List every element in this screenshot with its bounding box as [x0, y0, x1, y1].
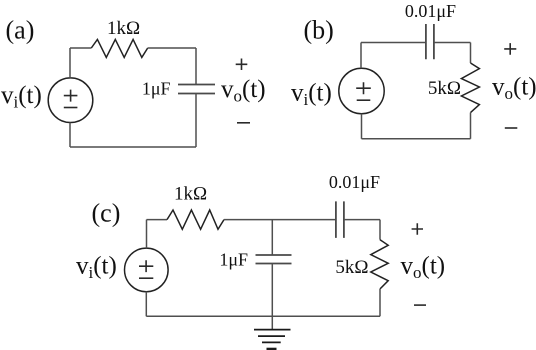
wire bottom (a) — [70, 146, 196, 148]
svg-text:vo(t): vo(t) — [221, 76, 266, 106]
wire right vertical lower (b) — [470, 113, 472, 139]
svg-text:1kΩ: 1kΩ — [174, 184, 207, 205]
svg-text:1kΩ: 1kΩ — [107, 18, 140, 39]
minus sign inside source (c) — [139, 277, 153, 279]
wire bottom (b) — [362, 138, 471, 140]
plus output marker (c) — [412, 223, 423, 235]
wire right vertical upper (a) — [195, 48, 197, 85]
wire top right segment (b) — [434, 42, 471, 44]
resistor 5kOhm (c) — [371, 240, 388, 289]
wire top-left vertical (c) — [146, 220, 148, 249]
wire right vertical lower (a) — [195, 94, 197, 148]
capacitor 1uF (a) — [178, 85, 215, 94]
svg-text:vi(t): vi(t) — [76, 253, 117, 283]
minus sign inside source (a) — [64, 107, 78, 109]
svg-text:(c): (c) — [92, 199, 121, 228]
wire bottom (c) — [146, 315, 380, 317]
plus sign inside source (a) — [64, 90, 78, 102]
wire right vertical upper (b) — [470, 43, 472, 64]
svg-text:(b): (b) — [304, 16, 334, 45]
svg-text:vi(t): vi(t) — [291, 80, 332, 110]
minus output marker (a) — [237, 122, 250, 124]
wire right vertical upper (c) — [379, 220, 381, 240]
svg-text:vo(t): vo(t) — [401, 253, 446, 283]
wire top right segment (c) — [344, 219, 380, 221]
wire bottom-left vertical (b) — [361, 114, 363, 139]
resistor 1kOhm (a) — [91, 39, 147, 57]
ground symbol (c) — [254, 330, 291, 349]
ground stub wire (c) — [271, 316, 273, 329]
capacitor 0.01uF series (c) — [336, 201, 344, 238]
svg-text:vo(t): vo(t) — [492, 74, 536, 104]
minus sign inside source (b) — [357, 99, 371, 101]
svg-text:5kΩ: 5kΩ — [335, 257, 368, 278]
voltage source v_i (a) — [48, 78, 93, 123]
svg-text:5kΩ: 5kΩ — [428, 78, 461, 99]
voltage source v_i (b) — [339, 68, 384, 113]
svg-text:(a): (a) — [6, 16, 35, 45]
plus sign inside source (b) — [356, 82, 371, 94]
wire top left segment (c) — [147, 219, 168, 221]
node vertical wire to shunt capacitor (c) — [271, 220, 273, 255]
wire bottom-left vertical (a) — [69, 123, 71, 148]
wire top left segment (b) — [361, 42, 426, 44]
wire top right segment (a) — [148, 47, 196, 49]
wire top left segment (a) — [70, 47, 91, 49]
capacitor 1uF shunt (c) — [256, 255, 292, 264]
plus output marker (a) — [236, 59, 248, 71]
svg-text:0.01μF: 0.01μF — [405, 1, 456, 21]
svg-text:vi(t): vi(t) — [1, 82, 42, 112]
wire top middle segment (c) — [224, 219, 336, 221]
svg-text:1μF: 1μF — [219, 250, 248, 270]
wire right vertical lower (c) — [379, 289, 381, 316]
minus output marker (c) — [414, 304, 426, 306]
minus output marker (b) — [505, 127, 518, 129]
voltage source v_i (c) — [125, 248, 169, 292]
wire below shunt capacitor (c) — [271, 264, 273, 317]
wire top-left vertical (a) — [69, 48, 71, 78]
resistor 1kOhm (c) — [167, 210, 224, 229]
capacitor 0.01uF (b) — [426, 24, 434, 59]
resistor 5kOhm (b) — [461, 63, 479, 113]
plus output marker (b) — [504, 43, 516, 55]
wire top-left vertical (b) — [360, 43, 362, 69]
plus sign inside source (c) — [139, 260, 153, 272]
wire bottom-left vertical (c) — [145, 292, 147, 317]
svg-text:0.01μF: 0.01μF — [329, 172, 380, 192]
svg-text:1μF: 1μF — [142, 79, 171, 99]
